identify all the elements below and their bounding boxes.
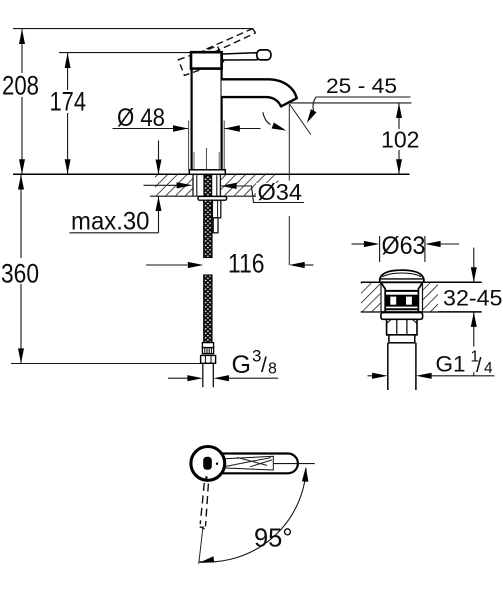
label Ø34: [256, 183, 303, 201]
drain collar: [389, 335, 415, 343]
svg-text:/: /: [476, 355, 482, 377]
connector hex nut: [201, 355, 216, 363]
32-45 top arrow: [473, 248, 475, 282]
drain flange: [381, 313, 423, 320]
extension line (174 reference): [59, 52, 192, 54]
svg-text:95°: 95°: [254, 525, 293, 553]
deck hatched section (faucet): [155, 175, 193, 196]
deck bottom line: [150, 195, 285, 197]
svg-text:208: 208: [2, 71, 39, 101]
dimension 208 line: [21, 29, 23, 174]
Ø63 extension lines: [379, 236, 381, 262]
outlet vertical reference line: [288, 104, 290, 181]
Ø34 arrows: [144, 184, 178, 186]
label 360: [0, 258, 41, 284]
dimension 116: [146, 264, 188, 266]
faucet spout: [222, 79, 297, 106]
shank tube walls in hole: [196, 175, 198, 196]
label 32-45: [442, 288, 503, 308]
drain body window band: [385, 295, 418, 307]
Ø48 extension lines: [188, 121, 190, 170]
extension line top (208 reference): [13, 28, 254, 30]
deck top line: [13, 173, 410, 175]
label 208: [0, 73, 42, 97]
hose knurled ring: [202, 348, 213, 354]
drain deck bottom line: [361, 311, 482, 313]
svg-text:Ø34: Ø34: [258, 179, 303, 205]
dimension 102: [398, 103, 400, 173]
dimension 174 line: [67, 53, 69, 174]
svg-text:G1: G1: [436, 352, 466, 377]
hose collar: [202, 343, 213, 348]
faucet body inner lines: [193, 152, 195, 169]
max.30 upper arrow: [158, 141, 160, 174]
base plate (escutcheon): [189, 170, 225, 175]
washer under deck: [198, 196, 227, 200]
faucet head (cartridge): [191, 52, 222, 68]
svg-text:/: /: [261, 354, 267, 377]
25-45 leader arrow: [313, 97, 316, 111]
svg-text:4: 4: [484, 360, 493, 377]
0° reference line: [273, 463, 314, 465]
drain hex nut: [387, 319, 417, 335]
dimension 360 line: [20, 175, 22, 363]
svg-text:Ø 48: Ø 48: [117, 104, 165, 132]
threaded shank rod: [204, 175, 212, 196]
spout swivel arc arrow: [263, 112, 271, 124]
faucet dashed head outline (open position): [178, 46, 223, 75]
mounting stud: [212, 200, 220, 217]
body circle (top view): [191, 447, 225, 481]
G3/8 pipe: [203, 363, 214, 387]
supply hose lower segment: [204, 275, 212, 343]
svg-text:174: 174: [50, 87, 87, 117]
drain pipe: [388, 343, 416, 390]
Ø63 arrows: [352, 243, 365, 245]
svg-text:116: 116: [228, 249, 265, 279]
stream reference line (diagonal): [289, 104, 310, 135]
svg-text:G: G: [232, 351, 251, 379]
radius line at 95°: [199, 526, 203, 564]
svg-text:25 - 45: 25 - 45: [326, 74, 397, 98]
dashed lever rotated 95°: [200, 483, 209, 529]
drain deck top line: [361, 281, 482, 283]
drain cap inner line: [383, 273, 422, 277]
max.30 lower arrow: [158, 197, 160, 233]
95° arc: [199, 469, 307, 562]
svg-text:max.30: max.30: [71, 208, 150, 236]
faucet body left wall: [191, 68, 193, 170]
faucet centerline: [205, 148, 207, 174]
label 174: [47, 90, 89, 113]
faucet lever rod: [222, 53, 257, 60]
32-45 bottom arrow: [473, 312, 475, 346]
supply hose upper segment: [204, 200, 212, 257]
drain body in deck: [381, 283, 422, 312]
deck hole walls: [192, 174, 194, 196]
drain cap: [380, 270, 424, 282]
svg-text:102: 102: [381, 127, 420, 153]
extension line bottom (360 reference): [11, 363, 201, 365]
svg-text:32-45: 32-45: [443, 286, 503, 311]
lever (top view): [222, 454, 298, 474]
outlet horizontal reference line: [290, 102, 412, 104]
faucet dashed lever (open position): [207, 29, 256, 53]
Ø48 right arrow: [224, 128, 260, 130]
lever hub mark: [203, 457, 212, 470]
G3/8 dimension arrows: [168, 377, 188, 379]
drain deck hatch: [361, 283, 381, 311]
svg-text:Ø63: Ø63: [382, 232, 426, 260]
drain hole walls: [380, 282, 382, 312]
drain pipe dimension arrows: [368, 375, 373, 377]
svg-text:360: 360: [1, 259, 39, 289]
lever grip inner shape: [223, 456, 274, 470]
svg-text:8: 8: [268, 361, 277, 378]
faucet body right wall: [221, 68, 223, 170]
faucet lever paddle: [257, 50, 271, 60]
